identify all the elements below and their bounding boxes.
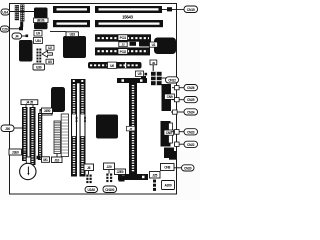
svg-text:J1E0: J1E0 <box>12 151 19 155</box>
svg-text:U5: U5 <box>48 60 52 64</box>
svg-text:CN25: CN25 <box>187 98 195 102</box>
svg-text:J4 J5: J4 J5 <box>26 101 33 105</box>
svg-text:U9: U9 <box>36 32 40 36</box>
svg-text:CN23: CN23 <box>187 130 195 134</box>
svg-text:J10: J10 <box>54 158 59 162</box>
svg-text:J6: J6 <box>87 166 91 170</box>
svg-text:C20: C20 <box>2 27 8 31</box>
svg-text:PCI2: PCI2 <box>120 50 127 54</box>
svg-text:J2: J2 <box>121 43 125 47</box>
svg-text:U5: U5 <box>138 72 142 76</box>
svg-text:CN12: CN12 <box>168 78 176 82</box>
svg-text:J25: J25 <box>152 173 157 177</box>
svg-text:CN8: CN8 <box>164 166 170 170</box>
svg-text:J4: J4 <box>15 34 19 38</box>
svg-text:CN24: CN24 <box>187 110 195 114</box>
svg-text:SM2: SM2 <box>83 117 87 123</box>
svg-text:CN100: CN100 <box>105 188 114 192</box>
svg-text:CN15: CN15 <box>187 8 195 12</box>
svg-text:U30: U30 <box>36 66 42 70</box>
svg-text:M1: M1 <box>43 158 48 162</box>
svg-text:CN26: CN26 <box>187 86 195 90</box>
svg-text:15643: 15643 <box>122 14 134 19</box>
svg-text:U34: U34 <box>35 39 41 43</box>
svg-text:J450: J450 <box>44 109 51 113</box>
svg-text:CN20: CN20 <box>184 166 192 170</box>
svg-text:U2: U2 <box>48 46 52 50</box>
svg-text:U1: U1 <box>152 43 156 47</box>
svg-text:U6: U6 <box>110 64 114 68</box>
svg-text:CN9: CN9 <box>167 95 173 99</box>
svg-text:A200: A200 <box>164 184 171 188</box>
svg-text:U14: U14 <box>2 10 8 14</box>
svg-text:SM1: SM1 <box>75 117 79 123</box>
svg-text:J30: J30 <box>5 127 10 131</box>
svg-text:J20: J20 <box>107 165 112 169</box>
svg-text:CN22: CN22 <box>187 143 195 147</box>
svg-text:U33: U33 <box>70 33 76 37</box>
svg-text:J2E0: J2E0 <box>117 170 124 174</box>
svg-text:(B10): (B10) <box>37 19 44 23</box>
svg-text:PCI1: PCI1 <box>120 36 127 40</box>
svg-text:U2A0: U2A0 <box>88 188 96 192</box>
